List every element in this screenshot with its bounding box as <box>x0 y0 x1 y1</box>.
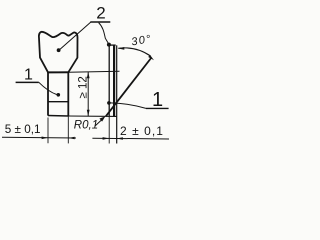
svg-text:2: 2 <box>96 4 105 23</box>
svg-text:R0,1: R0,1 <box>74 120 98 132</box>
svg-text:≥ 12: ≥ 12 <box>78 76 90 98</box>
svg-text:2 ± 0,1: 2 ± 0,1 <box>120 124 164 138</box>
svg-text:5 ± 0,1: 5 ± 0,1 <box>5 123 41 136</box>
svg-text:1: 1 <box>152 89 163 111</box>
svg-text:1: 1 <box>24 67 33 84</box>
